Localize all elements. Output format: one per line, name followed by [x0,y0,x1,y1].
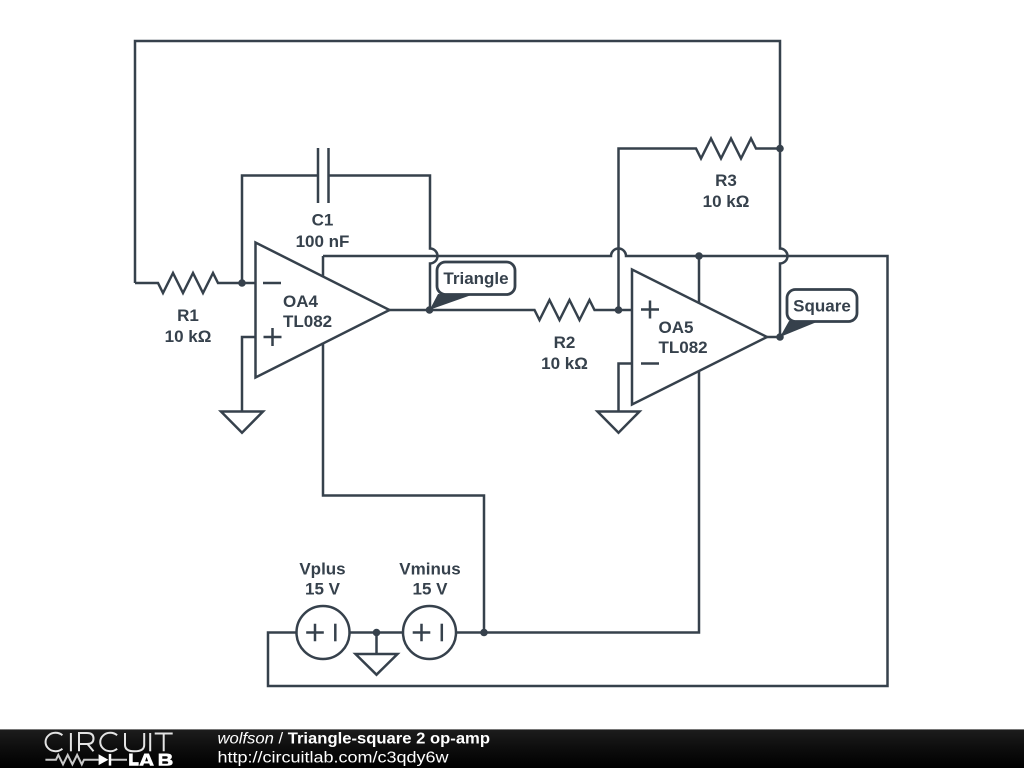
svg-text:R1: R1 [177,306,199,325]
svg-text:wolfson / Triangle-square 2 op: wolfson / Triangle-square 2 op-amp [218,731,491,748]
ground under OA5 [598,392,640,433]
svg-text:http://circuitlab.com/c3qdy6w: http://circuitlab.com/c3qdy6w [218,750,450,767]
svg-text:TL082: TL082 [659,338,708,357]
svg-text:Square: Square [793,297,851,316]
svg-text:OA5: OA5 [659,318,694,337]
svg-text:10 kΩ: 10 kΩ [703,192,750,211]
svg-text:R3: R3 [715,171,737,190]
wire between sources [350,631,404,634]
node OA5 output junction (Square) [776,333,784,341]
node OA4 output junction (Triangle) [426,306,434,314]
svg-text:R2: R2 [554,333,576,352]
wire C1 left branch [242,176,318,284]
wire R3 left vertical [619,149,673,311]
wire outer feedback loop: R1 up, top, down to R3 [135,41,780,283]
op-amp OA5 [632,270,767,405]
wire OA4 V- path [323,343,484,633]
capacitor C1 [318,148,329,203]
resistor R1 [135,273,242,293]
wire OA5 minus input to ground [619,364,633,392]
logo CIRCUIT letters [46,733,173,751]
svg-text:C1: C1 [312,211,334,230]
resistor R2 [511,300,619,320]
voltage source Vplus [297,560,350,660]
node V+ rail to OA5 junction [695,252,703,260]
wire OA4 output to R2 [390,309,511,312]
svg-text:15 V: 15 V [413,580,449,599]
wire OA5 plus input stub [619,309,633,312]
wire C1 right branch down [329,176,438,311]
node Square callout [780,290,857,338]
svg-text:10 kΩ: 10 kΩ [165,327,212,346]
svg-text:15 V: 15 V [305,580,341,599]
svg-text:100 nF: 100 nF [296,232,350,251]
svg-text:10 kΩ: 10 kΩ [541,354,588,373]
wire R3 junction down to OA5 output [780,149,788,338]
wire OA4 V+ stub [322,256,325,277]
node Triangle callout [430,262,515,310]
logo LAB letters [129,754,173,766]
voltage source Vminus [399,560,460,660]
svg-text:OA4: OA4 [283,292,319,311]
svg-text:Vminus: Vminus [399,560,460,579]
ground under OA4 [221,391,263,433]
wire Vminus right to OA5 V- [456,371,699,633]
node R2 / R3 / OA5 plus junction [615,306,623,314]
node junction R1 / C1 / op-amp minus [238,279,246,287]
logo resistor-diode [45,754,127,766]
resistor R3 [672,139,780,159]
svg-text:TL082: TL082 [283,312,332,331]
op-amp OA4 [256,243,390,378]
node OA4 V- junction [480,629,488,637]
wire OA5 output [767,336,780,339]
wire OA4 minus input stub [242,282,256,285]
wire OA4 plus input to ground [242,337,256,391]
wire OA5 V+ stub [698,256,701,303]
svg-text:Vplus: Vplus [299,560,345,579]
ground between sources [356,633,398,675]
node R3 right junction [776,145,784,153]
wire V+ rail with hops, right side, bottom, to Vplus [268,249,888,687]
node ground junction between sources [373,629,381,637]
svg-text:Triangle: Triangle [443,269,508,288]
